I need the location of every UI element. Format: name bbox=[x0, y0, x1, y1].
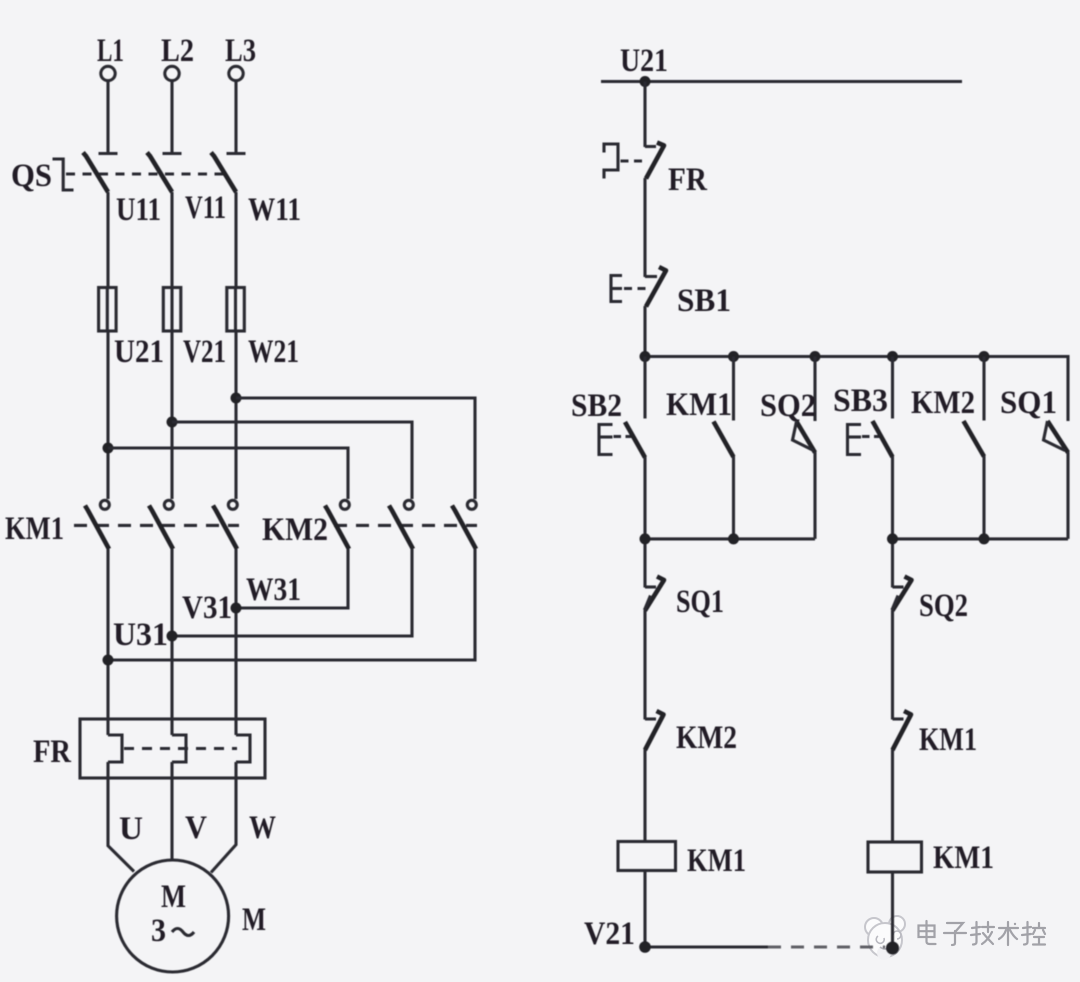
svg-text:KM2: KM2 bbox=[911, 385, 975, 421]
coil KM2 (labeled KM1) bbox=[868, 842, 922, 872]
wire KM2 pole1 to node W31 bbox=[236, 549, 348, 608]
svg-text:SB3: SB3 bbox=[833, 383, 888, 419]
svg-text:QS: QS bbox=[11, 158, 52, 194]
svg-text:V11: V11 bbox=[185, 190, 226, 226]
fuse FU3 bbox=[234, 288, 237, 331]
pushbutton SB1 (NC) actuator bbox=[611, 276, 622, 302]
wire KM2 pole3 to node U31 bbox=[108, 549, 475, 660]
svg-text:U11: U11 bbox=[116, 192, 161, 228]
thermal relay FR heater element 3 bbox=[236, 735, 250, 762]
limit switch SQ2 (NO) contact bbox=[797, 422, 816, 453]
contactor KM2 linkage dashed line bbox=[334, 524, 477, 527]
pushbutton SB2 (NO) contact bbox=[625, 422, 645, 458]
pushbutton SB3 (NO) actuator bbox=[848, 425, 862, 455]
relay contact FR (NC) bbox=[645, 145, 656, 148]
junction A2 on node A bus bbox=[728, 351, 739, 362]
junction W31 bbox=[231, 603, 242, 614]
relay contact FR (NC) actuator bbox=[604, 144, 618, 179]
junction V21 bbox=[167, 417, 178, 428]
wire SB1 to node A bbox=[643, 306, 646, 357]
fuse FU1 bbox=[106, 288, 109, 331]
junction W21 bbox=[231, 393, 242, 404]
wire V21 to KM2 pole2 bbox=[172, 422, 412, 499]
fuse FU2 bbox=[170, 288, 173, 331]
pushbutton SB2 (NO) link dashes bbox=[614, 435, 633, 438]
contactor KM2 main contact pole 1 bbox=[340, 500, 349, 509]
wire node C bus bbox=[893, 539, 1069, 588]
svg-text:KM1: KM1 bbox=[919, 722, 977, 758]
switch QS pole 2 blade bbox=[147, 153, 172, 193]
svg-text:V21: V21 bbox=[584, 916, 635, 952]
junction V21 right bbox=[886, 942, 899, 955]
thermal relay FR heater element 2 bbox=[172, 735, 186, 762]
contact KM2 aux (NO) bbox=[964, 421, 985, 457]
pushbutton SB2 (NO) actuator bbox=[599, 425, 613, 455]
wire stub to KM2 aux bbox=[982, 357, 985, 421]
wire V21 bus bbox=[645, 945, 768, 948]
switch QS handle bbox=[53, 159, 74, 190]
wire V fuse to KM1 bbox=[170, 331, 173, 499]
svg-text:SQ2: SQ2 bbox=[760, 388, 816, 424]
contactor KM1 main contact pole 2 bbox=[164, 500, 173, 509]
pushbutton SB3 (NO) link dashes bbox=[862, 435, 880, 438]
svg-text:KM1: KM1 bbox=[687, 843, 746, 879]
svg-text:V: V bbox=[185, 810, 207, 846]
svg-text:L2: L2 bbox=[161, 33, 194, 69]
wire U21 to FR contact bbox=[643, 82, 646, 148]
wire SB2 to node B bbox=[643, 457, 646, 539]
svg-text:L1: L1 bbox=[97, 33, 124, 69]
wire KM2 pole2 to node V31 bbox=[172, 549, 412, 636]
coil KM1 bbox=[618, 842, 676, 871]
wire W FR to motor bbox=[211, 762, 236, 873]
svg-text:3: 3 bbox=[151, 913, 166, 949]
contactor KM1 main contact pole 3 bbox=[228, 500, 237, 509]
wire V KM1 to FR bbox=[170, 549, 173, 735]
junction U21 bbox=[103, 443, 114, 454]
junction C2 on node C bus bbox=[979, 533, 990, 544]
wire SQ2 to node B bbox=[813, 452, 816, 539]
wire U FR to motor bbox=[108, 762, 134, 872]
contact KM2 interlock (NC) bbox=[645, 717, 656, 720]
wire V QS to fuse bbox=[170, 192, 173, 288]
wire W QS to fuse bbox=[234, 192, 237, 288]
svg-text:SB1: SB1 bbox=[677, 283, 731, 319]
wire SQ2 to KM1 interlock bbox=[891, 610, 894, 720]
svg-text:W31: W31 bbox=[246, 572, 301, 608]
wire KM2 interlock to coil KM1 bbox=[643, 750, 646, 842]
junction U21 bus bbox=[640, 76, 651, 87]
terminal L2 circle bbox=[165, 66, 179, 80]
wire W21 to KM2 pole3 bbox=[236, 398, 475, 499]
svg-text:W11: W11 bbox=[248, 192, 301, 228]
motor M circle bbox=[117, 860, 229, 972]
svg-text:KM1: KM1 bbox=[933, 840, 994, 876]
junction A5 on node A bus bbox=[979, 351, 990, 362]
switch QS pole 3 fixed contact bbox=[227, 152, 246, 155]
thermal relay FR linkage dashed line bbox=[124, 747, 237, 750]
wire U21 to KM2 pole1 bbox=[108, 448, 348, 499]
svg-text:W: W bbox=[249, 810, 276, 846]
pushbutton SB1 (NC) contact bbox=[645, 275, 657, 278]
relay contact FR (NC) link dashes bbox=[621, 159, 648, 162]
switch QS pole 3 blade bbox=[211, 153, 236, 193]
contactor KM2 main contact pole 3 bbox=[467, 500, 476, 509]
terminal L1 circle bbox=[101, 66, 115, 80]
svg-text:KM1: KM1 bbox=[5, 511, 64, 547]
wire stub to SB3 bbox=[891, 357, 894, 419]
wire SQ1 to KM2 interlock bbox=[643, 610, 646, 720]
svg-text:W21: W21 bbox=[248, 334, 299, 370]
wire U KM1 to FR bbox=[106, 549, 109, 735]
svg-text:L3: L3 bbox=[225, 33, 256, 69]
limit switch SQ1 (NO) contact bbox=[1048, 421, 1069, 453]
switch QS linkage dashed line bbox=[66, 172, 225, 175]
wire SB3 to node C bbox=[891, 457, 894, 539]
thermal relay FR box bbox=[80, 719, 265, 778]
wire node A bus bbox=[645, 357, 1068, 422]
wire KM1 aux to node B bbox=[732, 457, 735, 539]
limit switch SQ1 (NC) contact bbox=[645, 585, 656, 588]
junction B1 on node B bus bbox=[640, 533, 651, 544]
wire L3 to QS bbox=[234, 81, 237, 153]
svg-text:FR: FR bbox=[33, 734, 72, 770]
junction V31 bbox=[167, 631, 178, 642]
limit switch SQ2 (NC) contact bbox=[893, 585, 904, 588]
switch QS pole 1 fixed contact bbox=[99, 152, 118, 155]
svg-text:SQ1: SQ1 bbox=[1000, 385, 1057, 421]
wire W KM1 to FR bbox=[234, 549, 237, 735]
svg-text:U21: U21 bbox=[620, 43, 668, 79]
switch QS pole 2 fixed contact bbox=[163, 152, 182, 155]
wire stub to SQ2 bbox=[813, 357, 816, 422]
contactor KM2 main contact pole 2 bbox=[404, 500, 413, 509]
svg-text:FR: FR bbox=[668, 162, 708, 198]
svg-text:KM2: KM2 bbox=[262, 512, 328, 548]
wire stub to SB2 bbox=[643, 357, 646, 419]
pushbutton SB1 (NC) link dashes bbox=[624, 287, 647, 290]
junction A1 on node A bus bbox=[640, 351, 651, 362]
svg-text:U31: U31 bbox=[113, 617, 168, 653]
junction C1 on node C bus bbox=[887, 533, 898, 544]
wire U fuse to KM1 bbox=[106, 331, 109, 499]
svg-text:V21: V21 bbox=[183, 334, 226, 370]
wire V FR to motor bbox=[170, 762, 173, 861]
contact KM1 aux (NO) bbox=[714, 422, 734, 458]
junction V21 left bbox=[639, 941, 651, 953]
wire U QS to fuse bbox=[106, 192, 109, 288]
junction A3 on node A bus bbox=[810, 351, 821, 362]
wire L2 to QS bbox=[170, 81, 173, 153]
wire L1 to QS bbox=[106, 81, 109, 153]
wire W fuse to KM1 bbox=[234, 331, 237, 499]
svg-text:KM2: KM2 bbox=[676, 720, 737, 756]
wire coil KM2 to V21 bbox=[891, 872, 894, 947]
contactor KM1 main contact pole 1 bbox=[100, 500, 109, 509]
svg-text:M: M bbox=[242, 902, 266, 938]
svg-text:M: M bbox=[161, 879, 186, 915]
wire KM1 interlock to coil KM2 bbox=[891, 750, 894, 843]
wire coil KM1 to V21 bbox=[643, 871, 646, 948]
junction U31 bbox=[103, 655, 114, 666]
wire U21 bus bbox=[601, 80, 962, 83]
wire node B bus bbox=[645, 539, 815, 588]
svg-text:SQ2: SQ2 bbox=[919, 588, 968, 624]
svg-text:U21: U21 bbox=[114, 334, 164, 370]
svg-text:V31: V31 bbox=[182, 590, 232, 626]
contactor KM1 linkage dashed line bbox=[74, 524, 239, 527]
junction A4 on node A bus bbox=[887, 351, 898, 362]
wire KM2 aux to node C bbox=[982, 456, 985, 539]
junction B2 on node B bus bbox=[728, 533, 739, 544]
svg-text:U: U bbox=[119, 811, 143, 847]
wire FR to SB1 bbox=[643, 178, 646, 277]
svg-text:KM1: KM1 bbox=[666, 387, 732, 423]
thermal relay FR heater element 1 bbox=[108, 735, 122, 762]
wire stub to KM1 aux bbox=[732, 357, 735, 421]
terminal L3 circle bbox=[229, 66, 243, 80]
pushbutton SB3 (NO) contact bbox=[873, 421, 893, 457]
svg-text:SB2: SB2 bbox=[571, 388, 622, 424]
switch QS pole 1 blade bbox=[83, 153, 108, 193]
svg-text:SQ1: SQ1 bbox=[676, 584, 724, 620]
wire SQ1 to node C bbox=[1066, 452, 1069, 539]
contact KM1 interlock (NC) bbox=[893, 717, 904, 720]
